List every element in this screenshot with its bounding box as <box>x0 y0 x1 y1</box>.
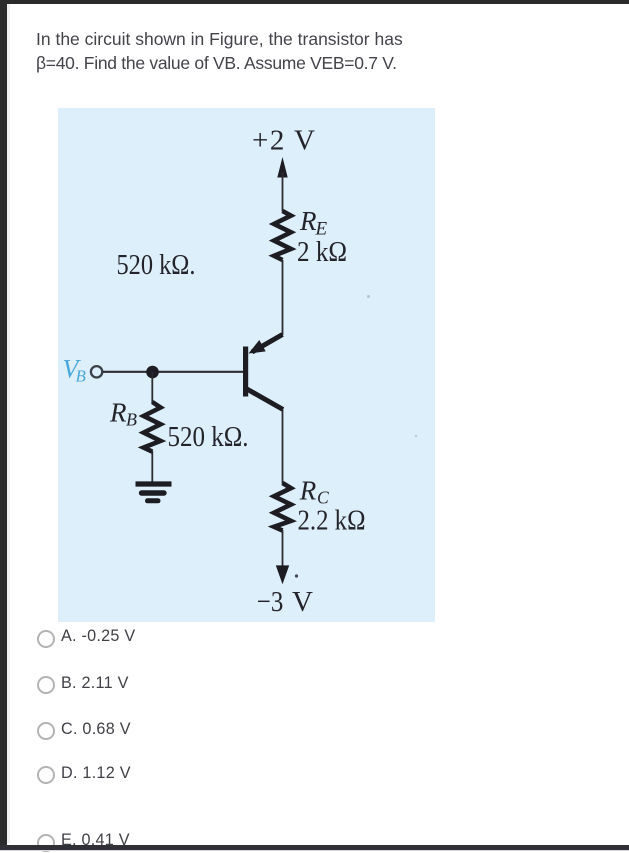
frame top bar <box>0 0 629 4</box>
wire collector to RC <box>282 409 284 484</box>
terminal VB circle <box>91 366 102 377</box>
label RC <box>299 476 329 508</box>
wire node to RB <box>151 372 153 403</box>
light strip under bottom bar <box>0 849 629 852</box>
option E radio <box>36 833 38 853</box>
frame bottom bar <box>0 845 629 850</box>
base wire <box>103 371 243 373</box>
option A radio <box>36 629 38 649</box>
svg-text:C: C <box>317 488 329 508</box>
svg-text:520 kΩ.: 520 kΩ. <box>117 249 196 281</box>
question text <box>36 27 536 75</box>
svg-text:B: B <box>76 367 87 386</box>
label RE <box>299 206 328 240</box>
frame left bar <box>0 0 7 849</box>
wire RE to emitter <box>282 260 284 335</box>
faint artifact dot 1 <box>367 295 370 298</box>
svg-text:2.2 kΩ: 2.2 kΩ <box>298 506 366 537</box>
arrow down to -3V <box>276 565 289 584</box>
svg-text:R: R <box>299 206 317 236</box>
faint artifact dot 2 <box>415 435 418 438</box>
svg-text:R: R <box>109 398 127 428</box>
ground bar 1 <box>136 481 172 486</box>
transistor Q1 emitter diagonal <box>252 335 283 353</box>
option B radio <box>36 675 38 695</box>
stray dot <box>295 574 298 577</box>
svg-text:V: V <box>292 586 313 618</box>
supply arrow up <box>277 157 287 212</box>
svg-text:−3: −3 <box>257 586 284 618</box>
svg-text:520 kΩ.: 520 kΩ. <box>168 422 249 453</box>
svg-text:R: R <box>299 476 317 506</box>
light edge strip <box>7 4 10 843</box>
wire RB to ground <box>151 451 153 482</box>
resistor RC <box>274 483 291 531</box>
label +2 V <box>252 125 315 157</box>
svg-text:+2 V: +2 V <box>252 125 315 157</box>
transistor Q1 collector diagonal <box>246 389 283 410</box>
resistor RE <box>274 211 291 260</box>
svg-text:2 kΩ: 2 kΩ <box>297 237 347 268</box>
label VB <box>63 355 87 386</box>
wire RC to -3V arrow <box>282 530 284 570</box>
ground bar 3 <box>148 498 159 503</box>
label RB <box>109 398 137 430</box>
circuit panel background <box>58 108 435 622</box>
transistor Q1 emitter arrowhead (PNP) <box>249 340 266 354</box>
transistor Q1 base bar <box>243 347 248 397</box>
resistor RB <box>144 402 161 452</box>
ground bar 2 <box>142 490 165 495</box>
svg-text:B: B <box>126 410 137 430</box>
option D radio <box>36 765 38 785</box>
option C radio <box>36 721 38 741</box>
node junction dot <box>146 366 159 379</box>
